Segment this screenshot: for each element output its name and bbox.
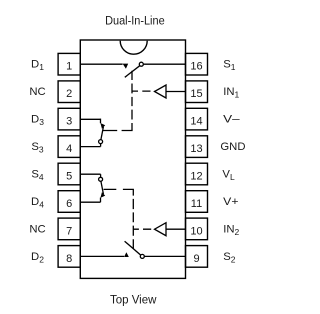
svg-text:3: 3 [66,116,72,128]
svg-text:5: 5 [66,171,72,183]
svg-text:V–: V– [223,114,240,126]
svg-text:10: 10 [190,225,202,237]
svg-text:GND: GND [220,141,245,153]
svg-text:1: 1 [66,61,72,73]
svg-text:Top View: Top View [110,294,157,306]
svg-text:S2: S2 [223,251,236,265]
svg-text:VL: VL [222,169,235,183]
svg-text:8: 8 [66,253,72,265]
svg-text:7: 7 [66,225,72,237]
svg-text:D3: D3 [31,114,44,128]
svg-text:IN2: IN2 [223,223,239,237]
svg-text:12: 12 [190,171,202,183]
svg-text:S4: S4 [31,169,44,183]
svg-text:6: 6 [66,198,72,210]
svg-text:4: 4 [66,143,72,155]
svg-text:Dual-In-Line: Dual-In-Line [105,14,165,28]
svg-text:IN1: IN1 [223,86,239,100]
svg-text:2: 2 [66,88,72,100]
svg-text:S1: S1 [223,59,236,73]
svg-text:14: 14 [190,116,202,128]
svg-text:D4: D4 [31,196,44,210]
svg-text:S3: S3 [31,141,44,155]
svg-text:D1: D1 [31,59,44,73]
svg-text:13: 13 [190,143,202,155]
svg-text:9: 9 [193,253,199,265]
svg-text:D2: D2 [31,251,44,265]
svg-text:NC: NC [29,86,45,98]
svg-text:NC: NC [29,223,45,235]
svg-text:V+: V+ [223,196,239,208]
svg-text:11: 11 [191,198,202,210]
svg-text:15: 15 [190,88,202,100]
svg-text:16: 16 [190,61,202,73]
